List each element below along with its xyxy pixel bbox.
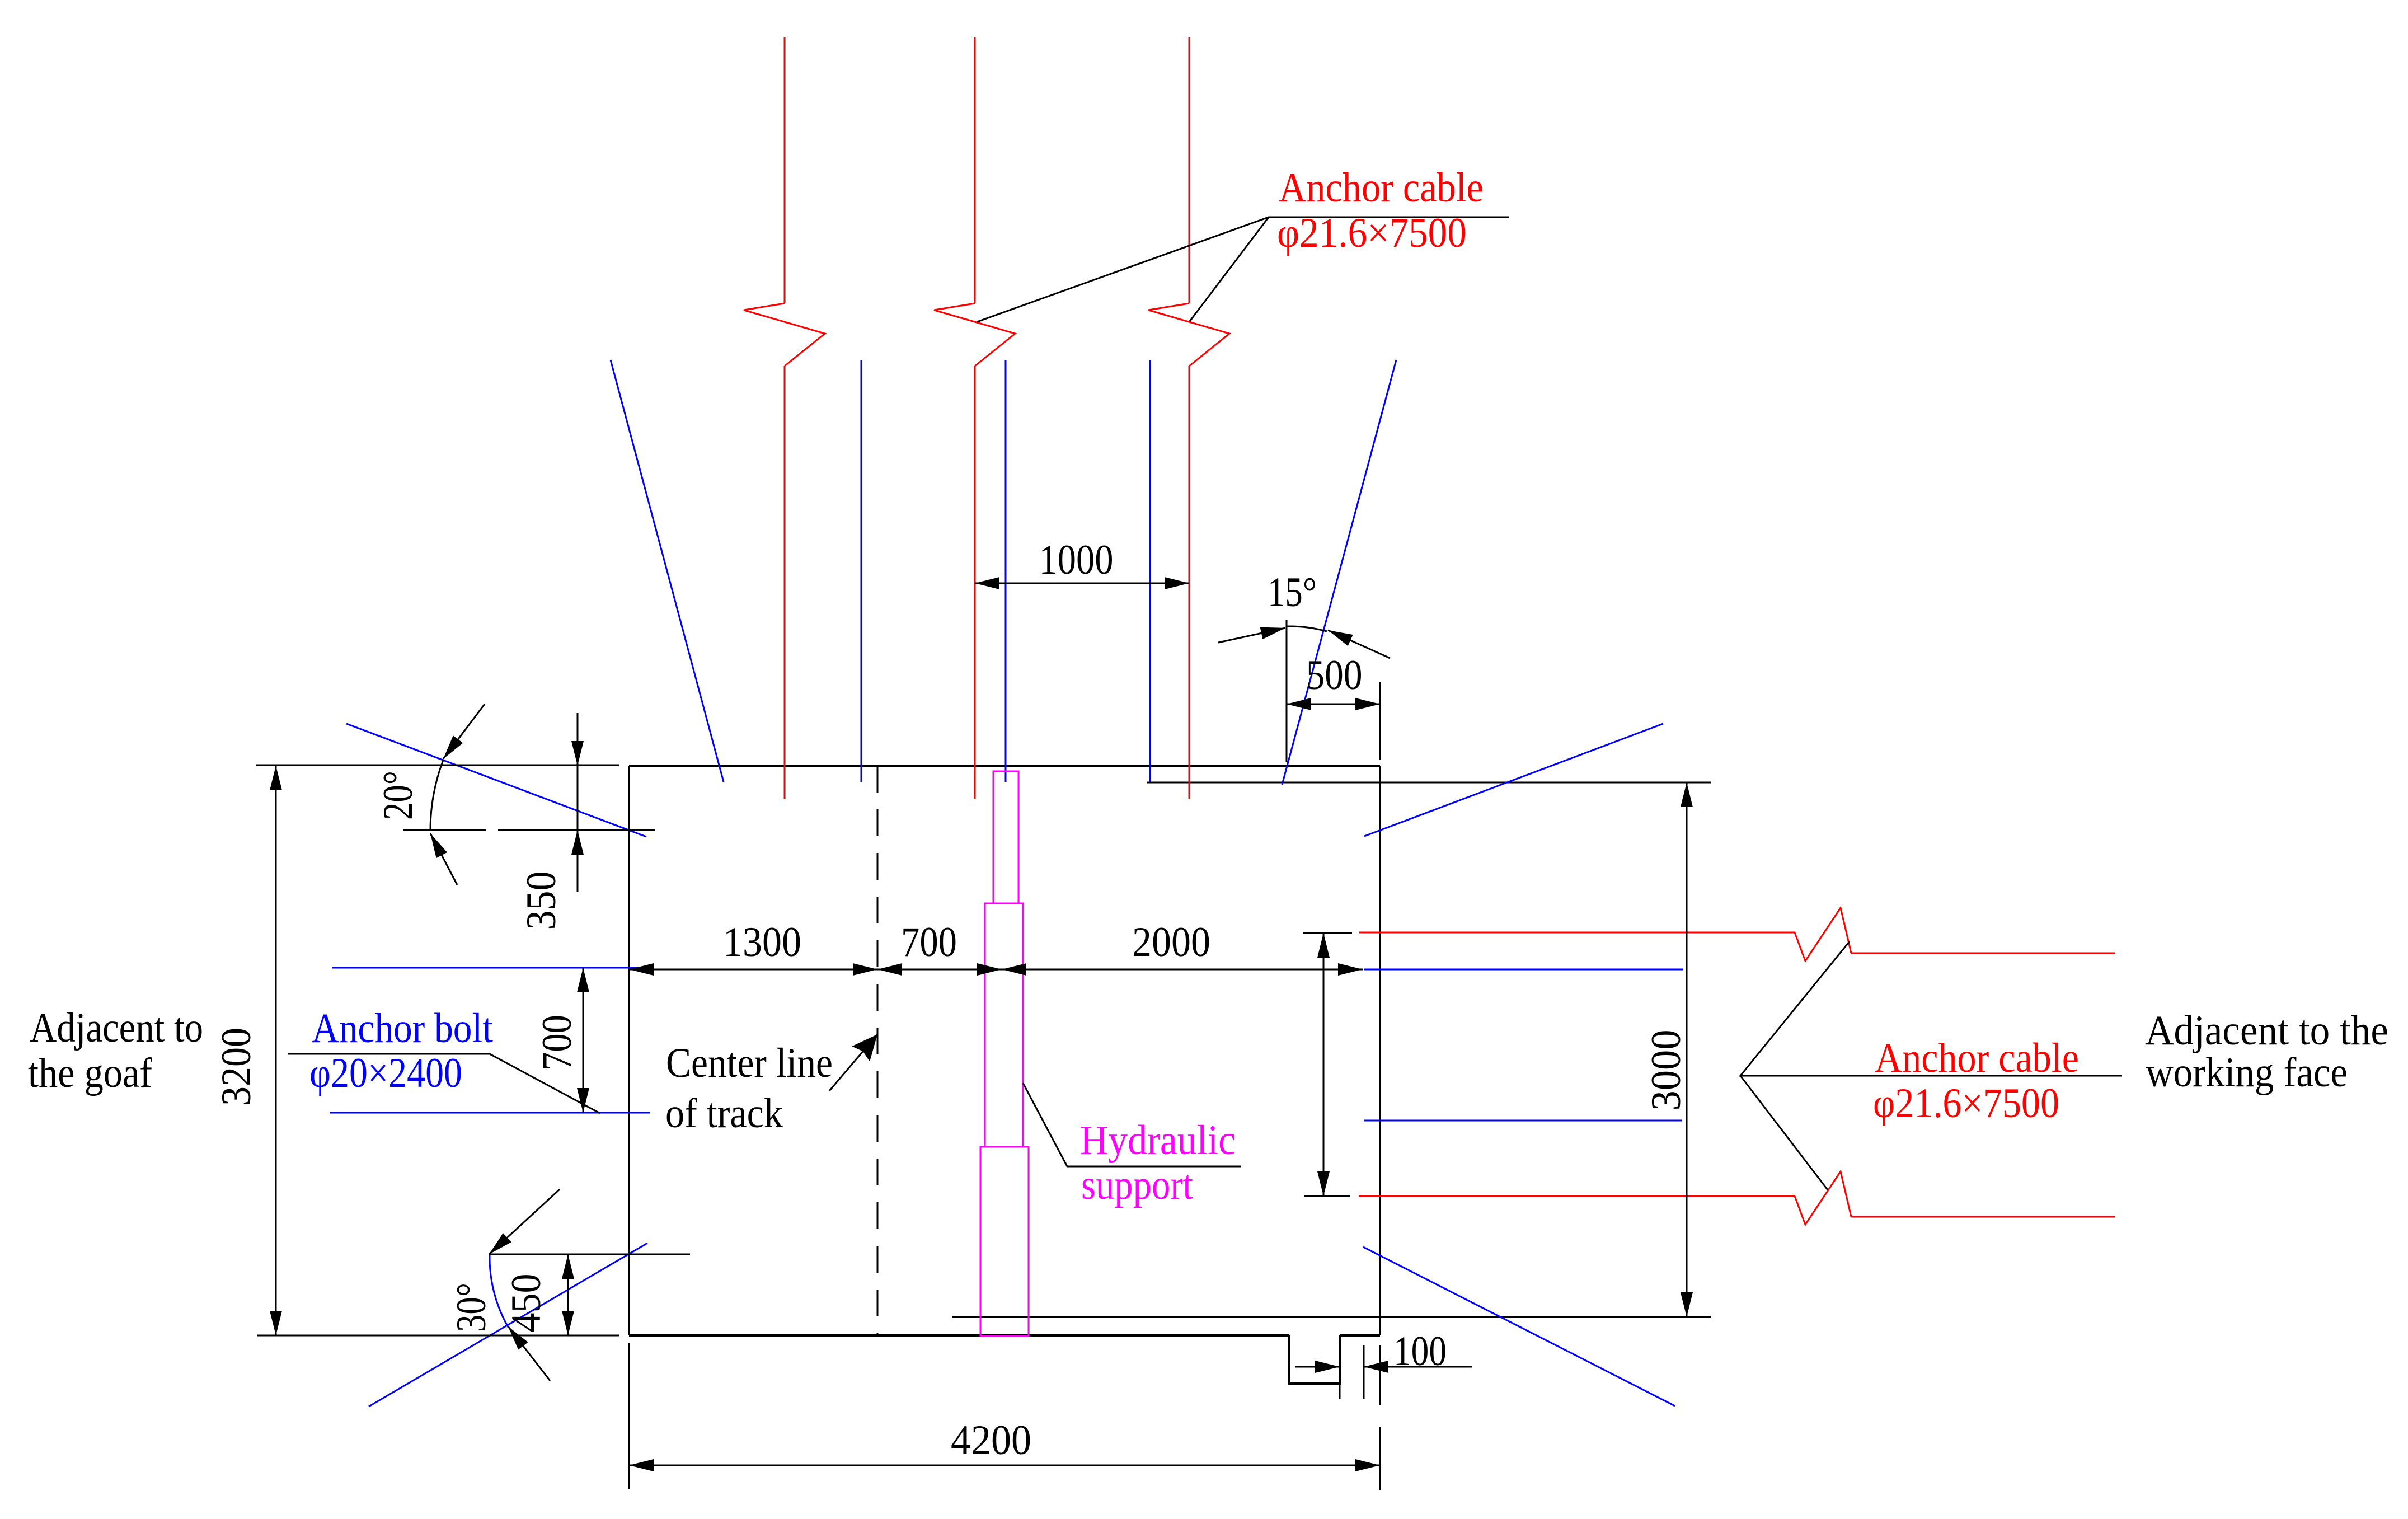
svg-text:working face: working face <box>2146 1049 2348 1096</box>
svg-text:100: 100 <box>1393 1328 1447 1375</box>
svg-text:Anchor cable: Anchor cable <box>1875 1035 2079 1081</box>
dimension 350 reference line at y=1483 <box>403 829 486 831</box>
svg-text:4200: 4200 <box>951 1417 1031 1464</box>
hydraulic support top section <box>993 771 1018 903</box>
svg-text:of track: of track <box>665 1090 783 1137</box>
svg-text:1300: 1300 <box>723 919 801 965</box>
dimension 20 deg arc <box>430 760 443 831</box>
svg-text:30°: 30° <box>448 1283 495 1332</box>
wire drainage notch <box>1289 1335 1340 1384</box>
dimension 20 deg arrow bottom <box>430 833 457 885</box>
wire anchor cable right wall row 2 with break <box>1359 1195 1795 1197</box>
dimension 700 segment <box>877 969 1002 971</box>
dimension vertical between cable rows line <box>1323 933 1325 1196</box>
dimension 100 right part <box>1364 1366 1472 1368</box>
svg-text:20°: 20° <box>375 771 421 820</box>
dimension 4200 extension left <box>628 1343 630 1489</box>
dimension 15 deg arc <box>1287 626 1327 631</box>
dimension vertical between cable rows ticks <box>1303 932 1352 934</box>
dimension 500 line with arrows <box>1287 704 1380 705</box>
wire roof anchor bolt angled left corner <box>611 360 724 782</box>
dimension 100 extension lines <box>1339 1335 1341 1399</box>
wire main floor left of drainage notch <box>629 1334 1289 1337</box>
dimension 30 deg arc (blue) <box>490 1255 508 1327</box>
hydraulic support bottom section <box>980 1147 1029 1336</box>
leader anchor bolt label <box>288 1054 600 1113</box>
svg-text:φ21.6×7500: φ21.6×7500 <box>1277 210 1467 256</box>
wire left wall (adjacent to goaf) <box>628 766 630 1335</box>
wire anchor cable roof 1 x=1402 with break symbol <box>784 37 786 303</box>
wire floor between notch and right wall <box>1340 1334 1380 1337</box>
wire roof anchor bolt vertical 1 <box>861 360 862 782</box>
dimension 1300 segment <box>629 969 877 971</box>
svg-text:support: support <box>1081 1162 1193 1208</box>
wire roadway roof line <box>629 765 1380 767</box>
wire roof anchor bolt vertical 3 <box>1149 360 1151 782</box>
node center line of track (dashed) <box>877 766 879 1335</box>
dimension 2000 segment <box>1002 969 1363 971</box>
dimension 1000 line with arrows <box>975 583 1189 584</box>
dimension 20 deg arrow top <box>443 704 485 759</box>
dimension 15 deg arrow left <box>1218 628 1285 643</box>
wire roof anchor bolt vertical 2 <box>1005 360 1007 782</box>
dimension 350 line <box>577 713 579 892</box>
wire right wall anchor bolt bottom angled <box>1363 1247 1675 1406</box>
wire left wall anchor bolt row 1 <box>332 967 649 969</box>
wire left wall anchor bolt 20 deg <box>346 724 646 837</box>
dimension 30 deg arrow top <box>489 1189 560 1254</box>
svg-text:500: 500 <box>1306 652 1363 698</box>
dimension 500 extension line left <box>1286 620 1288 762</box>
wire right wall anchor bolt row 2 <box>1364 1120 1682 1122</box>
svg-text:Center line: Center line <box>666 1040 833 1086</box>
dimension 4200 extension right <box>1379 1427 1381 1490</box>
wire right wall anchor bolt row 1 <box>1364 969 1683 971</box>
dimension 15 deg arrow right <box>1328 630 1390 658</box>
svg-text:700: 700 <box>901 919 957 965</box>
dimension 450 extension line <box>489 1254 690 1255</box>
svg-text:2000: 2000 <box>1132 919 1210 965</box>
svg-text:Anchor cable: Anchor cable <box>1279 165 1484 211</box>
svg-text:Anchor bolt: Anchor bolt <box>312 1005 493 1052</box>
dimension 3200 bottom extension line <box>257 1335 619 1337</box>
wire right roof extension / 3000 top extension <box>1147 782 1711 784</box>
svg-text:Adjacent to the: Adjacent to the <box>2145 1007 2388 1054</box>
wire right wall anchor bolt 20 deg <box>1364 724 1663 836</box>
svg-text:φ20×2400: φ20×2400 <box>309 1050 462 1096</box>
dimension 500 extension line right <box>1379 682 1381 759</box>
wire anchor cable roof 3 x=2125 with break symbol <box>1189 37 1190 303</box>
dimension 100 left part <box>1295 1366 1340 1368</box>
wire raised floor line / 3000 bottom extension <box>952 1316 1711 1318</box>
svg-text:Adjacent to: Adjacent to <box>30 1005 203 1051</box>
svg-text:450: 450 <box>503 1274 550 1333</box>
leader right anchor cable label <box>1740 941 2122 1076</box>
leader top anchor cable label <box>977 217 1509 322</box>
wire anchor cable right wall row 1 with break <box>1359 932 1795 934</box>
wire anchor cable roof 2 x=1742 with break symbol <box>974 37 976 303</box>
wire left wall anchor bolt row 2 <box>330 1112 650 1114</box>
leader hydraulic support label <box>1023 1083 1241 1166</box>
svg-text:the goaf: the goaf <box>28 1050 152 1096</box>
svg-text:Hydraulic: Hydraulic <box>1080 1117 1236 1164</box>
dimension 700 line with arrows <box>583 968 584 1113</box>
dimension 30 deg arrow on bolt <box>508 1326 550 1381</box>
svg-text:φ21.6×7500: φ21.6×7500 <box>1873 1080 2059 1127</box>
wire roof anchor bolt angled right corner 15 deg <box>1282 360 1396 785</box>
dimension 3200 line with arrows <box>275 766 277 1335</box>
dimension 4200 line with arrows <box>629 1465 1380 1466</box>
svg-text:1000: 1000 <box>1039 537 1114 583</box>
svg-text:350: 350 <box>518 871 565 930</box>
hydraulic support middle section <box>985 903 1023 1147</box>
dimension 3200 top extension line <box>256 765 619 766</box>
wire right wall (adjacent to working face) <box>1379 766 1381 1335</box>
dimension 450 line with arrows <box>567 1254 569 1335</box>
svg-text:3200: 3200 <box>213 1028 260 1106</box>
wire left wall anchor bolt 30 deg <box>369 1243 647 1407</box>
svg-text:700: 700 <box>534 1015 580 1071</box>
svg-text:3000: 3000 <box>1643 1030 1689 1111</box>
dimension 350 arrows <box>577 722 579 766</box>
svg-text:15°: 15° <box>1268 569 1317 616</box>
dimension 3000 line with arrows <box>1686 782 1688 1317</box>
leader center line of track arrow <box>829 1034 877 1091</box>
